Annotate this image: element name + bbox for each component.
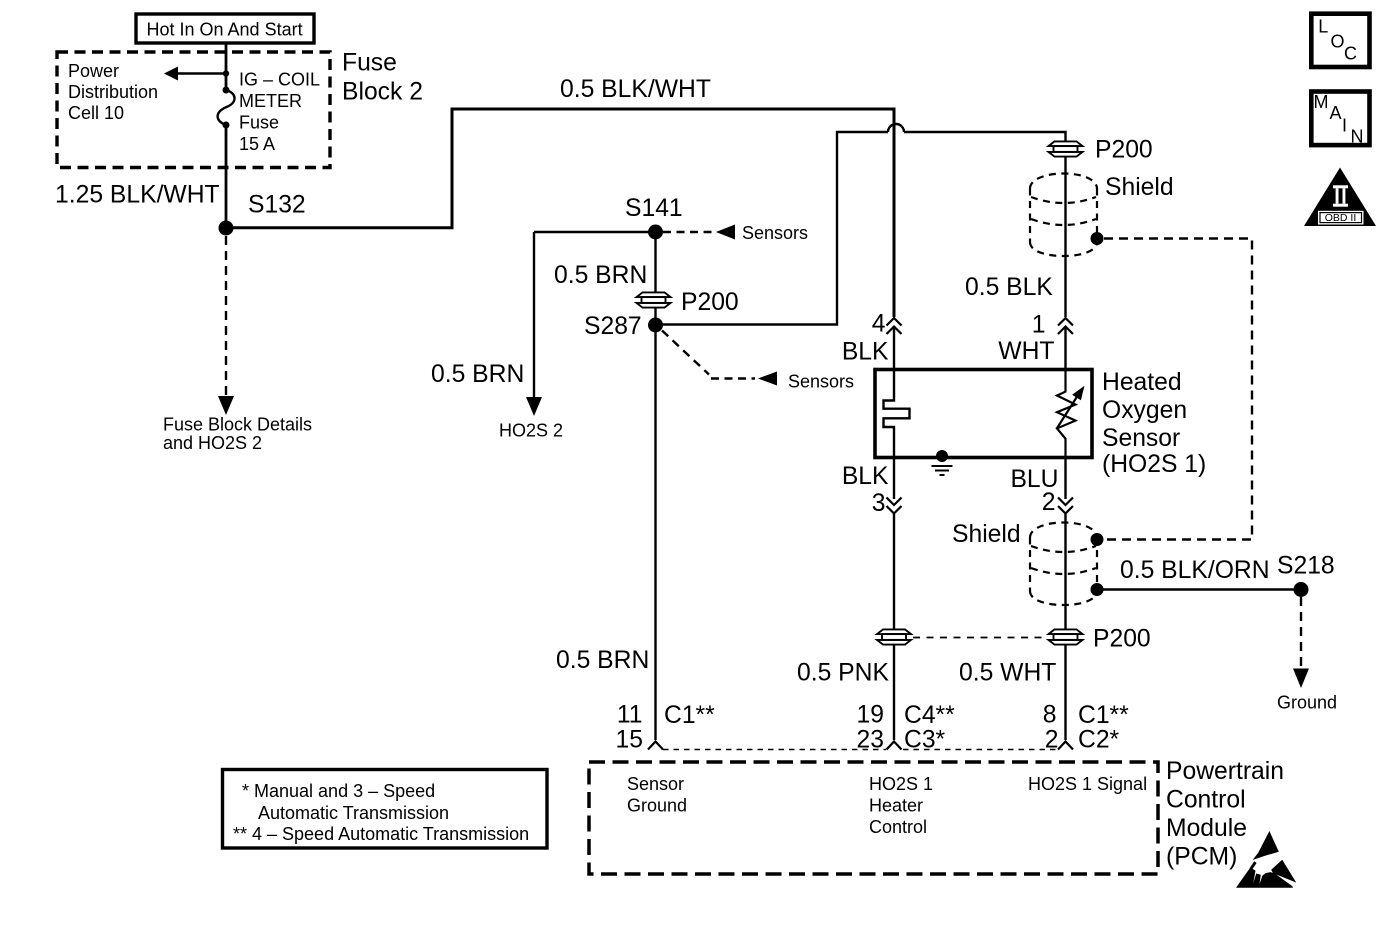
svg-text:Fuse Block Details: Fuse Block Details — [163, 415, 312, 435]
svg-text:C1**: C1** — [664, 702, 715, 729]
svg-text:0.5 PNK: 0.5 PNK — [797, 660, 889, 687]
svg-text:P200: P200 — [1095, 137, 1153, 164]
svg-text:C: C — [1344, 44, 1357, 64]
svg-text:Cell 10: Cell 10 — [68, 103, 124, 123]
svg-text:Sensors: Sensors — [742, 223, 808, 243]
svg-text:19: 19 — [857, 702, 884, 729]
svg-text:0.5 BLK/WHT: 0.5 BLK/WHT — [560, 76, 711, 103]
svg-text:Heated: Heated — [1102, 369, 1182, 396]
svg-text:O: O — [1331, 31, 1345, 51]
svg-text:Sensor: Sensor — [627, 774, 684, 794]
svg-text:2: 2 — [1042, 489, 1056, 516]
svg-text:C4**: C4** — [904, 702, 955, 729]
svg-text:0.5 BLK: 0.5 BLK — [965, 274, 1053, 301]
svg-text:0.5 BRN: 0.5 BRN — [431, 361, 524, 388]
svg-text:Ground: Ground — [1277, 693, 1337, 713]
svg-text:HO2S 1: HO2S 1 — [869, 774, 933, 794]
svg-text:P200: P200 — [1093, 626, 1151, 653]
svg-text:WHT: WHT — [998, 338, 1054, 365]
svg-text:S132: S132 — [248, 192, 306, 219]
svg-text:METER: METER — [239, 91, 302, 111]
svg-text:HO2S 2: HO2S 2 — [499, 421, 563, 441]
svg-text:2: 2 — [1045, 727, 1059, 754]
svg-text:Sensors: Sensors — [788, 372, 854, 392]
svg-text:OBD II: OBD II — [1325, 212, 1357, 224]
svg-text:Sensor: Sensor — [1102, 425, 1180, 452]
svg-text:Heater: Heater — [869, 796, 923, 816]
svg-text:0.5 WHT: 0.5 WHT — [959, 660, 1056, 687]
svg-text:0.5 BRN: 0.5 BRN — [556, 647, 649, 674]
svg-text:1: 1 — [1032, 312, 1046, 339]
svg-text:IG – COIL: IG – COIL — [239, 70, 320, 90]
svg-text:Oxygen: Oxygen — [1102, 397, 1187, 424]
svg-text:8: 8 — [1043, 702, 1057, 729]
svg-text:Block 2: Block 2 — [342, 79, 423, 106]
svg-text:N: N — [1351, 127, 1364, 147]
svg-text:3: 3 — [872, 490, 886, 517]
svg-text:** 4 – Speed Automatic Transmi: ** 4 – Speed Automatic Transmission — [233, 824, 529, 844]
svg-text:Ground: Ground — [627, 796, 687, 816]
svg-text:Shield: Shield — [952, 521, 1021, 548]
svg-text:S141: S141 — [625, 195, 683, 222]
svg-text:23: 23 — [857, 727, 884, 754]
svg-text:Control: Control — [1166, 787, 1246, 814]
svg-text:* Manual and 3 – Speed: * Manual and 3 – Speed — [242, 781, 435, 801]
svg-text:15: 15 — [616, 727, 643, 754]
svg-text:0.5 BLK/ORN: 0.5 BLK/ORN — [1120, 557, 1270, 584]
svg-text:S218: S218 — [1277, 553, 1335, 580]
svg-text:(PCM): (PCM) — [1166, 844, 1237, 871]
svg-text:and HO2S 2: and HO2S 2 — [163, 433, 262, 453]
svg-text:1.25 BLK/WHT: 1.25 BLK/WHT — [55, 182, 220, 209]
svg-text:Power: Power — [68, 61, 119, 81]
svg-text:BLK: BLK — [842, 339, 889, 366]
svg-text:15 A: 15 A — [239, 134, 275, 154]
svg-text:M: M — [1314, 92, 1329, 112]
svg-text:11: 11 — [617, 702, 643, 729]
svg-text:C2*: C2* — [1078, 727, 1120, 754]
svg-text:BLK: BLK — [842, 463, 889, 490]
svg-text:Module: Module — [1166, 815, 1247, 842]
svg-text:4: 4 — [872, 311, 886, 338]
svg-text:A: A — [1330, 103, 1342, 123]
svg-text:(HO2S 1): (HO2S 1) — [1102, 451, 1206, 478]
svg-text:Automatic Transmission: Automatic Transmission — [258, 803, 449, 823]
svg-text:C3*: C3* — [904, 727, 946, 754]
svg-text:L: L — [1318, 17, 1328, 37]
svg-text:Distribution: Distribution — [68, 82, 158, 102]
svg-text:Powertrain: Powertrain — [1166, 758, 1284, 785]
svg-text:HO2S 1 Signal: HO2S 1 Signal — [1028, 774, 1147, 794]
svg-text:Fuse: Fuse — [239, 113, 279, 133]
svg-text:Shield: Shield — [1105, 174, 1174, 201]
svg-text:S287: S287 — [584, 313, 642, 340]
svg-text:Hot In On And Start: Hot In On And Start — [147, 20, 303, 40]
svg-text:P200: P200 — [681, 289, 739, 316]
svg-text:I: I — [1342, 116, 1347, 136]
svg-text:Control: Control — [869, 817, 927, 837]
svg-text:C1**: C1** — [1078, 702, 1129, 729]
svg-text:Fuse: Fuse — [342, 50, 397, 77]
svg-text:0.5 BRN: 0.5 BRN — [554, 262, 647, 289]
